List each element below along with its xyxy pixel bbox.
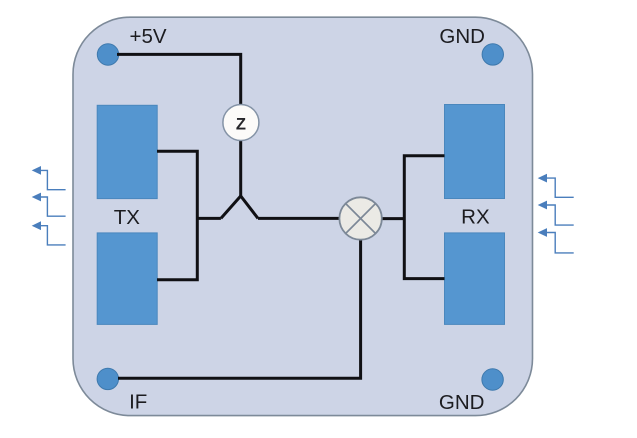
TX radiated signal arrow 2	[40, 197, 66, 216]
impedance element Z	[223, 105, 259, 141]
RX patch antenna bottom	[445, 233, 505, 325]
svg-text:GND: GND	[439, 391, 485, 414]
wire splitter right branch to mixer	[258, 217, 340, 220]
module board outline	[73, 17, 533, 415]
TX radiated signal arrow 3	[40, 226, 66, 245]
TX patch antenna top	[97, 105, 157, 198]
svg-text:TX: TX	[114, 206, 141, 229]
RX incoming signal arrow 1	[546, 178, 574, 197]
wire +5V pad to Z	[117, 54, 241, 104]
svg-text:GND: GND	[439, 25, 485, 48]
RX incoming signal arrow 2	[546, 205, 574, 225]
pad +5V (top-left mounting pad)	[97, 44, 118, 65]
TX patch antenna bottom	[97, 233, 157, 325]
wire mixer to IF pad	[118, 240, 361, 379]
pad GND (top-right mounting pad)	[482, 44, 503, 65]
splitter Y junction	[221, 196, 258, 218]
pad GND (bottom-right mounting pad)	[482, 369, 503, 390]
wire TX feed bracket	[157, 151, 197, 279]
svg-text:RX: RX	[461, 206, 490, 229]
wire RX feed bracket	[404, 156, 444, 279]
svg-text:+5V: +5V	[129, 25, 166, 48]
RX incoming signal arrow 3	[546, 233, 574, 253]
RX patch antenna top	[445, 105, 505, 199]
wire Z to splitter point	[239, 140, 242, 196]
wire mixer to RX bracket	[381, 217, 404, 220]
svg-text:IF: IF	[129, 391, 147, 414]
wire splitter left branch to TX bracket	[197, 217, 221, 220]
mixer	[339, 197, 381, 239]
pad IF (bottom-left mounting pad)	[97, 368, 118, 389]
TX radiated signal arrow 1	[40, 170, 66, 189]
svg-text:Z: Z	[236, 115, 246, 133]
